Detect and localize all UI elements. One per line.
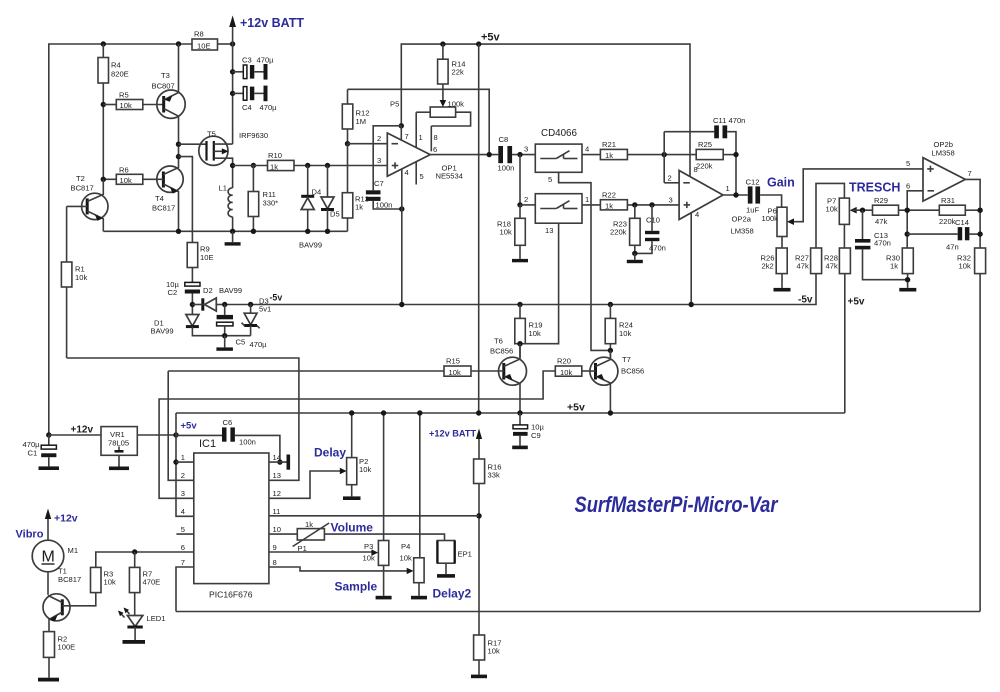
svg-text:L1: L1	[219, 184, 227, 193]
svg-text:BAV99: BAV99	[151, 327, 174, 336]
svg-text:IRF9630: IRF9630	[239, 131, 268, 140]
svg-text:C3: C3	[242, 56, 252, 65]
svg-text:47k: 47k	[826, 262, 838, 271]
svg-text:R29: R29	[874, 196, 888, 205]
svg-text:LM358: LM358	[932, 149, 955, 158]
wire pin 10 / P1 Volume	[269, 533, 297, 535]
node C2/D2/D1	[190, 302, 195, 307]
svg-text:10: 10	[273, 525, 281, 534]
resistor R21	[582, 154, 600, 156]
wire pin 12 to P2 wiper	[269, 471, 344, 498]
wire OP1 pin2	[348, 143, 388, 145]
svg-text:1: 1	[585, 195, 589, 204]
svg-text:10k: 10k	[400, 554, 412, 563]
svg-text:1k: 1k	[355, 203, 363, 212]
svg-text:R25: R25	[698, 140, 712, 149]
svg-text:EP1: EP1	[458, 550, 472, 559]
+5v rail mid	[176, 412, 845, 414]
wire path A to IC1 pin13	[67, 358, 299, 480]
OP2b output	[965, 179, 980, 248]
resistor R16	[474, 459, 485, 484]
node L1 bottom	[230, 229, 235, 234]
wire M1 to T1	[47, 572, 49, 595]
svg-text:220k: 220k	[696, 162, 713, 171]
svg-text:SurfMasterPi-Micro-Var: SurfMasterPi-Micro-Var	[575, 492, 779, 517]
resistor R3	[91, 567, 102, 592]
resistor R10	[233, 165, 268, 167]
wire R8 right	[218, 43, 233, 45]
svg-text:T6: T6	[494, 337, 503, 346]
svg-text:M1: M1	[68, 546, 79, 555]
svg-text:+5v: +5v	[481, 32, 501, 44]
svg-text:8: 8	[273, 558, 277, 567]
capacitor C5	[224, 305, 226, 315]
svg-text:T2: T2	[76, 174, 85, 183]
wire gate	[179, 143, 207, 145]
svg-text:12: 12	[273, 489, 281, 498]
wire OP1 pin4 to -5v	[401, 170, 403, 305]
svg-text:+5v: +5v	[848, 297, 865, 308]
switch U1a box	[535, 144, 582, 172]
wire top rail left of R8	[49, 44, 192, 435]
pot P7	[839, 198, 849, 224]
svg-text:2: 2	[377, 134, 381, 143]
capacitor C12	[748, 186, 753, 203]
svg-text:1k: 1k	[605, 151, 613, 160]
svg-text:1k: 1k	[605, 202, 613, 211]
pot P3 Sample	[378, 541, 388, 566]
svg-text:7: 7	[181, 558, 185, 567]
svg-text:OP2a: OP2a	[732, 215, 752, 224]
OP1 output wire	[430, 154, 498, 156]
svg-text:2: 2	[181, 471, 185, 480]
svg-text:BC856: BC856	[490, 347, 513, 356]
+12v BATT arrow	[232, 26, 234, 44]
svg-text:Volume: Volume	[331, 521, 374, 535]
resistor R7	[134, 552, 136, 567]
trimmer P5	[430, 107, 455, 117]
svg-text:5: 5	[906, 159, 910, 168]
capacitor C14 line	[905, 231, 910, 236]
svg-text:10k: 10k	[826, 205, 838, 214]
svg-text:P3: P3	[364, 542, 373, 551]
wire pin 8 to P4 wiper	[269, 567, 409, 571]
svg-text:C12: C12	[746, 178, 760, 187]
resistor R31	[939, 205, 965, 215]
svg-text:1k: 1k	[305, 520, 313, 529]
resistor R25	[696, 149, 723, 159]
svg-text:BC856: BC856	[621, 367, 644, 376]
capacitor C11	[664, 131, 714, 133]
node C5 top	[222, 302, 227, 307]
svg-text:5: 5	[548, 175, 552, 184]
svg-text:C2: C2	[168, 288, 178, 297]
svg-text:1: 1	[181, 453, 185, 462]
OP2a output	[723, 194, 748, 196]
svg-text:D4: D4	[312, 188, 322, 197]
svg-text:100n: 100n	[239, 438, 256, 447]
capacitor C13	[862, 210, 864, 239]
node C7 bottom	[399, 206, 404, 211]
svg-text:C10: C10	[646, 216, 660, 225]
capacitor C9	[519, 413, 521, 425]
svg-text:470E: 470E	[143, 578, 161, 587]
svg-text:13: 13	[545, 226, 553, 235]
node R21/R25	[662, 152, 667, 157]
svg-text:BC817: BC817	[58, 575, 81, 584]
svg-text:10k: 10k	[500, 228, 512, 237]
svg-text:R8: R8	[194, 30, 204, 39]
svg-text:+12v: +12v	[54, 513, 78, 525]
pin 5 stub	[176, 533, 193, 535]
node R4 top	[101, 41, 106, 46]
svg-text:33k: 33k	[488, 471, 500, 480]
svg-text:3: 3	[669, 196, 673, 205]
OP2a pin4 to -5v	[690, 213, 692, 305]
resistor R22	[582, 204, 600, 206]
op-amp OP2a LM358	[679, 171, 723, 220]
node C4	[230, 91, 235, 96]
transistor T1 BC817	[43, 594, 70, 621]
resistor R4	[102, 44, 104, 58]
pot P4 Delay2	[414, 558, 424, 583]
pin 5 stub	[415, 162, 417, 185]
svg-text:R10: R10	[268, 151, 282, 160]
svg-text:5: 5	[420, 172, 424, 181]
svg-text:6: 6	[433, 145, 437, 154]
svg-text:10k: 10k	[488, 647, 500, 656]
bottom rail	[176, 611, 980, 613]
diode D1	[186, 315, 199, 327]
wire to R9	[179, 157, 193, 243]
svg-text:R5: R5	[119, 91, 129, 100]
resistor R18	[519, 205, 521, 218]
wire pin 7 to bottom rail	[176, 567, 194, 612]
svg-text:C9: C9	[531, 431, 541, 440]
svg-text:10k: 10k	[120, 176, 132, 185]
+5v corner vertical	[176, 413, 194, 516]
svg-text:330*: 330*	[263, 199, 279, 208]
svg-text:6: 6	[906, 182, 910, 191]
svg-text:T5: T5	[207, 130, 216, 139]
svg-text:R31: R31	[941, 196, 955, 205]
resistor R29	[850, 207, 857, 214]
svg-text:470µ: 470µ	[250, 340, 268, 349]
node T4 emitter	[176, 229, 181, 234]
svg-text:100n: 100n	[376, 201, 393, 210]
resistor R1	[66, 206, 68, 262]
svg-text:5: 5	[181, 525, 185, 534]
capacitor C3	[233, 71, 244, 73]
resistor R17	[474, 635, 485, 660]
svg-text:C14: C14	[955, 218, 969, 227]
svg-text:7: 7	[968, 169, 972, 178]
+5v feed down	[476, 41, 481, 46]
svg-text:9: 9	[273, 543, 277, 552]
svg-text:T4: T4	[155, 194, 164, 203]
svg-text:10k: 10k	[560, 368, 572, 377]
svg-text:C5: C5	[236, 338, 246, 347]
resistor R28	[839, 248, 850, 274]
svg-text:R22: R22	[602, 191, 616, 200]
svg-text:1: 1	[726, 184, 730, 193]
resistor R6	[103, 178, 116, 180]
pin 8 stub	[430, 126, 432, 151]
svg-text:470µ: 470µ	[257, 56, 275, 65]
svg-text:1uF: 1uF	[746, 206, 759, 215]
svg-text:Vibro: Vibro	[16, 529, 44, 541]
+5v top rail	[401, 44, 690, 177]
svg-text:820E: 820E	[111, 70, 129, 79]
svg-text:4: 4	[585, 145, 589, 154]
node T3 top	[176, 41, 181, 46]
pot P6	[777, 207, 787, 236]
svg-text:D5: D5	[330, 210, 340, 219]
node T3e/T5 gate	[176, 142, 181, 147]
svg-text:6: 6	[181, 543, 185, 552]
svg-text:10k: 10k	[75, 273, 87, 282]
svg-text:Delay: Delay	[314, 446, 346, 460]
capacitor C7 branch	[373, 126, 401, 191]
resistor R26	[776, 248, 787, 274]
svg-text:+12v: +12v	[71, 425, 94, 436]
resistor R15	[168, 370, 444, 372]
svg-text:5v1: 5v1	[259, 305, 271, 314]
svg-text:D2: D2	[203, 286, 213, 295]
svg-text:22k: 22k	[452, 68, 464, 77]
resistor R20	[159, 371, 555, 498]
wire pin7	[400, 126, 402, 141]
op-amp OP1 NE5534	[387, 133, 430, 176]
node R8 right	[230, 41, 235, 46]
svg-text:1k: 1k	[890, 262, 898, 271]
transistor T7 BC856	[590, 357, 618, 385]
capacitor C8	[498, 146, 503, 163]
diode D4	[305, 163, 310, 168]
ground TX	[232, 231, 234, 242]
svg-text:47n: 47n	[946, 243, 959, 252]
svg-text:10E: 10E	[197, 42, 211, 51]
resistor R30	[902, 248, 913, 274]
svg-text:4: 4	[405, 168, 409, 177]
resistor R12	[342, 104, 353, 129]
svg-text:3: 3	[181, 489, 185, 498]
op-amp OP2b LM358	[923, 158, 965, 201]
wire +12 rail down to T5 source	[232, 44, 234, 144]
svg-text:P4: P4	[401, 542, 410, 551]
svg-text:100k: 100k	[448, 100, 465, 109]
+12v arrow	[47, 513, 49, 540]
svg-text:47k: 47k	[797, 262, 809, 271]
svg-text:3: 3	[377, 156, 381, 165]
wire VR1 out	[137, 434, 176, 436]
svg-text:+5v: +5v	[567, 402, 585, 414]
transistor T3 BC807	[157, 90, 185, 118]
ground rail TX	[103, 230, 347, 232]
svg-text:PIC16F676: PIC16F676	[209, 590, 253, 600]
resistor R23	[632, 202, 637, 207]
svg-text:100E: 100E	[58, 643, 76, 652]
resistor R27	[811, 248, 822, 274]
resistor R14	[440, 41, 445, 46]
svg-text:220k: 220k	[939, 217, 956, 226]
svg-text:NE5534: NE5534	[436, 172, 463, 181]
capacitor C1	[48, 435, 50, 445]
svg-text:10k: 10k	[529, 329, 541, 338]
capacitor C2	[185, 282, 200, 286]
svg-text:10k: 10k	[359, 465, 371, 474]
pin6 wire	[907, 191, 923, 248]
resistor R2	[44, 632, 55, 658]
svg-text:T3: T3	[161, 71, 170, 80]
svg-text:10k: 10k	[959, 262, 971, 271]
regulator VR1 78L05	[101, 427, 137, 456]
wire pin 6	[96, 552, 194, 567]
motor M1	[32, 540, 64, 572]
svg-text:470µ: 470µ	[260, 103, 278, 112]
diode D5	[325, 163, 330, 168]
node +12v C1	[46, 432, 51, 437]
diode D2	[201, 298, 204, 310]
svg-text:-5v: -5v	[270, 293, 283, 303]
svg-text:4: 4	[181, 507, 185, 516]
svg-text:10k: 10k	[363, 554, 375, 563]
resistor R32	[975, 248, 986, 274]
resistor R13	[347, 144, 349, 193]
svg-text:C11: C11	[713, 116, 726, 125]
svg-text:100n: 100n	[498, 164, 515, 173]
transistor T6 BC856	[499, 357, 527, 385]
svg-text:Gain: Gain	[767, 176, 795, 190]
svg-text:BC807: BC807	[152, 82, 175, 91]
svg-text:R6: R6	[119, 166, 129, 175]
svg-text:8: 8	[434, 133, 438, 142]
LED1	[127, 616, 142, 627]
svg-text:11: 11	[273, 507, 281, 516]
feedback wire	[348, 89, 490, 154]
svg-text:10k: 10k	[619, 329, 631, 338]
node pin7	[399, 123, 404, 128]
svg-text:13: 13	[273, 471, 281, 480]
svg-text:C4: C4	[242, 103, 252, 112]
wire pin 11 to R16	[269, 515, 479, 517]
svg-text:4: 4	[695, 210, 699, 219]
svg-text:R15: R15	[446, 357, 460, 366]
svg-text:C7: C7	[374, 179, 384, 188]
resistor R11	[251, 163, 256, 168]
svg-text:78L05: 78L05	[108, 439, 129, 448]
pin5 control path	[559, 172, 611, 350]
node R6 left	[101, 177, 106, 182]
svg-text:220k: 220k	[610, 228, 627, 237]
node R12/R13/pin2	[345, 141, 350, 146]
svg-text:LED1: LED1	[147, 614, 166, 623]
switch U1b box	[535, 194, 582, 224]
node R5 left	[101, 102, 106, 107]
wire pin 14 / gnd bar	[277, 459, 282, 464]
svg-text:3: 3	[524, 145, 528, 154]
capacitor C10	[649, 202, 654, 207]
svg-text:47k: 47k	[875, 217, 887, 226]
wire pin 9 to P3 wiper	[269, 551, 373, 553]
svg-text:470n: 470n	[729, 116, 746, 125]
zener D3	[248, 302, 253, 307]
svg-text:+5v: +5v	[181, 421, 198, 432]
svg-text:2: 2	[524, 195, 528, 204]
svg-text:+12v BATT: +12v BATT	[429, 429, 476, 439]
pin 1 stub	[415, 112, 417, 147]
resistor R8	[192, 39, 218, 50]
resistor R9	[187, 243, 198, 268]
svg-text:1: 1	[419, 133, 423, 142]
svg-text:10E: 10E	[200, 253, 214, 262]
wire pin 1	[173, 459, 178, 464]
svg-text:10k: 10k	[104, 578, 116, 587]
svg-text:R4: R4	[111, 61, 121, 70]
earphone EP1	[437, 541, 454, 564]
svg-text:10k: 10k	[449, 368, 461, 377]
wire +12v to VR1	[49, 434, 101, 436]
capacitor C4	[233, 92, 244, 94]
inductor L1	[228, 188, 233, 217]
IC1 PIC16F676	[194, 453, 269, 584]
svg-text:BAV99: BAV99	[219, 286, 242, 295]
svg-text:BAV99: BAV99	[299, 241, 322, 250]
node T4c/R9	[176, 154, 181, 159]
svg-text:R21: R21	[602, 140, 616, 149]
svg-text:7: 7	[405, 132, 409, 141]
wire pin2 row	[520, 204, 535, 206]
svg-text:C1: C1	[28, 449, 38, 458]
capacitor C6	[176, 434, 222, 436]
resistor R19	[517, 302, 522, 307]
svg-text:IC1: IC1	[199, 438, 216, 450]
svg-text:P5: P5	[390, 100, 399, 109]
resistor R24	[608, 302, 613, 307]
transistor T2 BC817	[82, 193, 108, 219]
-5v rail	[225, 274, 816, 305]
svg-text:Sample: Sample	[335, 580, 378, 594]
svg-text:BC817: BC817	[152, 204, 175, 213]
svg-text:LM358: LM358	[731, 227, 754, 236]
svg-text:100k: 100k	[762, 214, 779, 223]
svg-text:TRESCH: TRESCH	[849, 181, 900, 195]
svg-text:1M: 1M	[356, 117, 367, 126]
svg-text:470n: 470n	[649, 244, 666, 253]
svg-text:2k2: 2k2	[762, 262, 774, 271]
mosfet T5 IRF9630	[199, 136, 228, 165]
svg-text:C6: C6	[223, 418, 233, 427]
node T5 drain	[230, 163, 235, 168]
svg-text:BC817: BC817	[71, 184, 94, 193]
svg-text:M: M	[42, 549, 55, 566]
svg-text:10k: 10k	[120, 101, 132, 110]
svg-text:T7: T7	[622, 355, 631, 364]
transistor T4 BC817	[157, 166, 183, 192]
svg-text:CD4066: CD4066	[541, 128, 577, 139]
svg-text:2: 2	[668, 174, 672, 183]
svg-text:-5v: -5v	[798, 295, 813, 306]
node C3	[230, 69, 235, 74]
svg-text:470n: 470n	[874, 239, 891, 248]
svg-text:C8: C8	[499, 135, 509, 144]
wire pin 2 to T6 base loop	[168, 371, 194, 480]
svg-text:Delay2: Delay2	[433, 587, 472, 601]
pin13 control path	[520, 223, 559, 344]
svg-text:1k: 1k	[270, 163, 278, 172]
node C8 right	[517, 152, 522, 157]
resistor R5	[103, 104, 116, 106]
